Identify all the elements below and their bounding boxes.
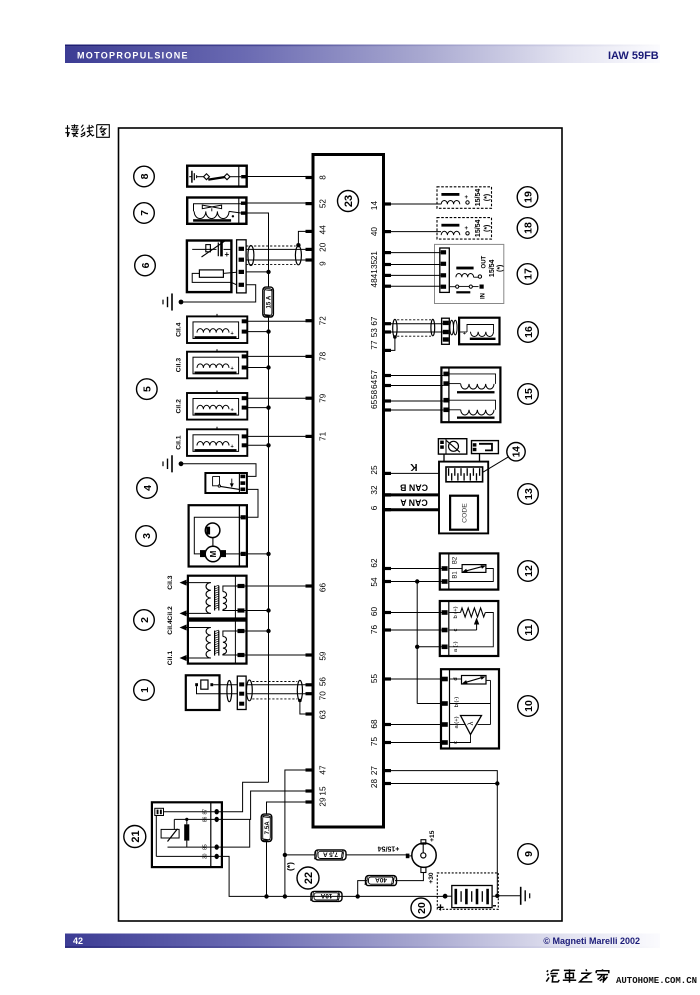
svg-text:66: 66 bbox=[319, 583, 328, 593]
svg-text:47: 47 bbox=[319, 765, 328, 775]
svg-text:1: 1 bbox=[139, 687, 151, 693]
svg-text:15 A: 15 A bbox=[266, 295, 273, 308]
svg-text:28: 28 bbox=[370, 779, 379, 789]
svg-text:59: 59 bbox=[319, 651, 328, 661]
svg-text:44: 44 bbox=[319, 225, 328, 235]
svg-text:21: 21 bbox=[130, 830, 142, 842]
svg-text:20: 20 bbox=[319, 242, 328, 252]
svg-text:67: 67 bbox=[370, 316, 379, 326]
svg-text:IN: IN bbox=[481, 293, 487, 299]
svg-text:7.5A: 7.5A bbox=[264, 821, 271, 835]
svg-text:+: + bbox=[231, 366, 234, 372]
svg-text:16: 16 bbox=[523, 326, 535, 338]
svg-text:40: 40 bbox=[370, 227, 379, 237]
svg-text:(*): (*) bbox=[497, 265, 504, 272]
svg-text:5: 5 bbox=[142, 386, 154, 392]
svg-text:8: 8 bbox=[139, 173, 151, 179]
svg-text:+30: +30 bbox=[428, 872, 435, 884]
svg-text:CAN B: CAN B bbox=[400, 483, 428, 493]
svg-text:Cil.2: Cil.2 bbox=[176, 399, 183, 414]
svg-text:68: 68 bbox=[370, 719, 379, 729]
svg-text:21: 21 bbox=[370, 251, 379, 261]
svg-text:14: 14 bbox=[512, 446, 523, 458]
svg-text:3: 3 bbox=[141, 533, 153, 539]
svg-text:Cil.4: Cil.4 bbox=[176, 322, 183, 337]
svg-text:Cil.1: Cil.1 bbox=[176, 435, 183, 450]
svg-text:a (+): a (+) bbox=[454, 716, 460, 728]
svg-text:15/54: 15/54 bbox=[489, 259, 496, 277]
svg-text:(*): (*) bbox=[484, 225, 491, 232]
svg-text:+: + bbox=[231, 331, 234, 337]
svg-text:15/54: 15/54 bbox=[475, 219, 482, 237]
svg-text:75: 75 bbox=[370, 737, 379, 747]
svg-text:15: 15 bbox=[319, 786, 328, 796]
svg-text:b (-): b (-) bbox=[454, 697, 460, 708]
svg-text:© Magneti Marelli 2002: © Magneti Marelli 2002 bbox=[543, 936, 640, 946]
svg-text:6: 6 bbox=[370, 505, 379, 510]
svg-text:+: + bbox=[437, 901, 444, 915]
svg-text:+: + bbox=[231, 444, 234, 450]
svg-text:77: 77 bbox=[370, 340, 379, 350]
svg-text:+: + bbox=[463, 331, 466, 337]
svg-text:AUTOHOME.COM.CN: AUTOHOME.COM.CN bbox=[616, 976, 697, 986]
svg-text:λ: λ bbox=[466, 721, 475, 725]
svg-text:Cil.4: Cil.4 bbox=[167, 620, 174, 635]
svg-text:29: 29 bbox=[319, 797, 328, 807]
svg-text:63: 63 bbox=[319, 710, 328, 720]
svg-text:27: 27 bbox=[370, 766, 379, 776]
svg-text:62: 62 bbox=[370, 558, 379, 568]
svg-text:41: 41 bbox=[370, 269, 379, 279]
svg-text:Cil.3: Cil.3 bbox=[167, 575, 174, 590]
svg-text:60: 60 bbox=[370, 607, 379, 617]
svg-text:64: 64 bbox=[370, 379, 379, 389]
svg-text:8: 8 bbox=[319, 175, 328, 180]
svg-text:78: 78 bbox=[319, 351, 328, 361]
svg-text:70: 70 bbox=[319, 691, 328, 701]
svg-text:22: 22 bbox=[303, 872, 315, 884]
svg-text:17: 17 bbox=[522, 268, 534, 280]
svg-text:(*): (*) bbox=[484, 194, 491, 201]
svg-text:14: 14 bbox=[370, 201, 379, 211]
svg-text:65: 65 bbox=[370, 399, 379, 409]
svg-text:58: 58 bbox=[370, 390, 379, 400]
svg-text:19: 19 bbox=[522, 191, 534, 203]
svg-text:53: 53 bbox=[370, 328, 379, 338]
svg-text:79: 79 bbox=[319, 393, 328, 403]
svg-text:40A: 40A bbox=[375, 876, 387, 883]
svg-text:+: + bbox=[465, 195, 469, 201]
svg-text:B1: B1 bbox=[452, 571, 458, 579]
svg-text:9: 9 bbox=[523, 851, 535, 857]
svg-text:(*): (*) bbox=[285, 862, 295, 871]
svg-text:52: 52 bbox=[319, 199, 328, 209]
svg-text:Cil.3: Cil.3 bbox=[176, 358, 183, 373]
svg-text:+: + bbox=[231, 408, 234, 414]
svg-text:76: 76 bbox=[370, 625, 379, 635]
svg-text:15: 15 bbox=[523, 388, 535, 400]
svg-text:54: 54 bbox=[370, 577, 379, 587]
svg-text:+15: +15 bbox=[429, 830, 436, 842]
svg-text:CODE: CODE bbox=[462, 503, 469, 523]
svg-text:12: 12 bbox=[523, 565, 535, 577]
svg-text:6: 6 bbox=[140, 262, 152, 268]
svg-text:4: 4 bbox=[142, 485, 154, 491]
svg-text:CAN A: CAN A bbox=[400, 498, 428, 508]
svg-text:71: 71 bbox=[319, 431, 328, 441]
svg-text:+: + bbox=[225, 250, 230, 259]
svg-text:25: 25 bbox=[370, 465, 379, 475]
svg-text:55: 55 bbox=[370, 674, 379, 684]
svg-text:B2: B2 bbox=[452, 556, 458, 564]
svg-text:2: 2 bbox=[139, 617, 151, 623]
svg-text:23: 23 bbox=[343, 195, 355, 207]
svg-text:MOTOPROPULSIONE: MOTOPROPULSIONE bbox=[77, 51, 189, 61]
svg-text:20: 20 bbox=[416, 902, 428, 914]
svg-text:13: 13 bbox=[523, 488, 535, 500]
svg-text:35: 35 bbox=[370, 259, 379, 269]
svg-text:18: 18 bbox=[522, 222, 534, 234]
svg-text:IAW 59FB: IAW 59FB bbox=[608, 50, 659, 62]
svg-text:32: 32 bbox=[370, 485, 379, 495]
svg-text:Cil.1: Cil.1 bbox=[167, 651, 174, 666]
svg-text:7,5 A: 7,5 A bbox=[323, 850, 338, 857]
svg-text:-: - bbox=[493, 898, 497, 912]
svg-text:72: 72 bbox=[319, 316, 328, 326]
svg-text:15/54: 15/54 bbox=[475, 189, 482, 207]
svg-text:+15/54: +15/54 bbox=[378, 844, 400, 851]
svg-text:11: 11 bbox=[523, 624, 535, 635]
svg-text:7: 7 bbox=[139, 210, 151, 216]
svg-text:+: + bbox=[465, 226, 469, 232]
svg-text:42: 42 bbox=[73, 936, 83, 946]
svg-text:10A: 10A bbox=[320, 892, 332, 899]
svg-text:48: 48 bbox=[370, 278, 379, 288]
svg-text:M: M bbox=[209, 550, 218, 557]
svg-text:K: K bbox=[410, 461, 418, 472]
svg-text:Cil.2: Cil.2 bbox=[167, 606, 174, 621]
svg-text:56: 56 bbox=[319, 677, 328, 687]
svg-text:10: 10 bbox=[523, 700, 535, 712]
svg-text:57: 57 bbox=[370, 370, 379, 380]
svg-text:9: 9 bbox=[319, 261, 328, 266]
svg-text:OUT: OUT bbox=[482, 255, 488, 268]
